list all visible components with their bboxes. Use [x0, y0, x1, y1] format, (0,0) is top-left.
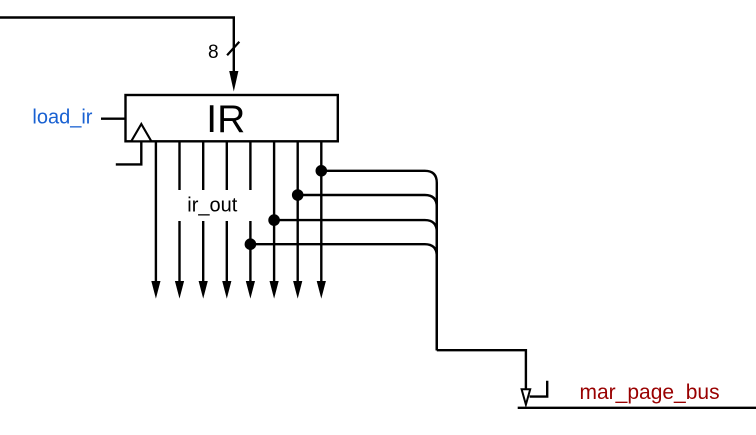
svg-text:ir_out: ir_out	[187, 195, 237, 217]
svg-text:IR: IR	[206, 98, 245, 141]
svg-text:mar_page_bus: mar_page_bus	[580, 381, 720, 404]
svg-text:8: 8	[208, 42, 219, 63]
svg-text:load_ir: load_ir	[32, 107, 92, 129]
